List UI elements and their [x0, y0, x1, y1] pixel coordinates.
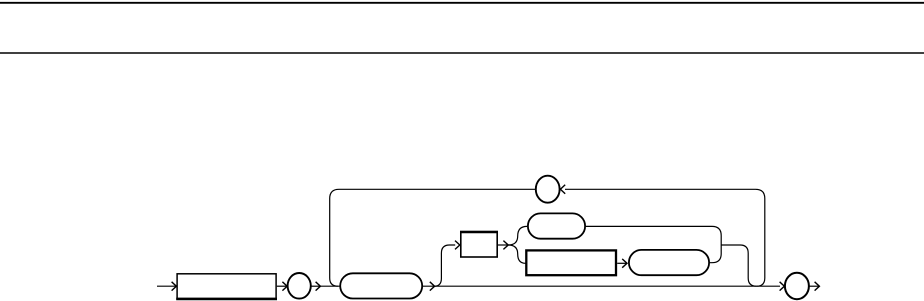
- wire: merge exit to main line: [721, 245, 756, 286]
- top rule 2: [0, 52, 924, 54]
- wire: RECT1 to CIRCLE1: [277, 285, 287, 287]
- wire: junction down to RECT2: [508, 245, 525, 263]
- arrowhead into CIRCLE1: [282, 282, 287, 291]
- box BOX (small non-terminal): [461, 232, 497, 257]
- circle CIRCLE3 (end): [785, 273, 809, 299]
- RECT1 thick bottom edge: [176, 298, 277, 301]
- wire: start line: [157, 285, 176, 287]
- wire: BOX to split junction: [498, 244, 508, 246]
- wire: CIRCLE1 to loop join: [311, 285, 320, 287]
- wire: loop back, left run and drop to main line: [330, 189, 536, 286]
- final arrowhead: [815, 282, 820, 291]
- BOX thick top edge: [460, 231, 498, 234]
- arrowhead after BOX: [503, 241, 508, 250]
- wire: main baseline: [320, 285, 780, 287]
- box RECT1 (non-terminal): [177, 274, 276, 299]
- circle CIRCLE1: [288, 273, 311, 299]
- arrowhead into OVAL3: [622, 259, 627, 268]
- arrowhead into CIRCLE3: [780, 282, 785, 291]
- wire: branch up from main line to BOX: [434, 245, 455, 286]
- circle CIRCLE2 (loop separator): [536, 176, 560, 203]
- wire: OVAL2 exit to right descent: [586, 226, 721, 262]
- arrowhead into RECT1: [172, 282, 177, 291]
- wire: junction up to OVAL2: [508, 226, 527, 245]
- oval OVAL2 (terminal): [528, 213, 585, 238]
- box RECT2 (non-terminal, thick): [526, 250, 616, 275]
- top rule 1: [0, 2, 924, 4]
- arrowhead into BOX: [455, 241, 460, 250]
- oval OVAL3 (terminal): [629, 250, 709, 275]
- arrowhead after OVAL1: [430, 282, 435, 291]
- wire: loop back, right riser up from main line: [565, 189, 765, 286]
- arrowhead after CIRCLE1: [316, 282, 321, 291]
- wire: final exit line: [809, 285, 819, 287]
- wire: RECT2 to OVAL3: [617, 262, 626, 264]
- arrowhead pointing left into CIRCLE2: [560, 185, 565, 194]
- oval OVAL1 (terminal): [340, 273, 422, 298]
